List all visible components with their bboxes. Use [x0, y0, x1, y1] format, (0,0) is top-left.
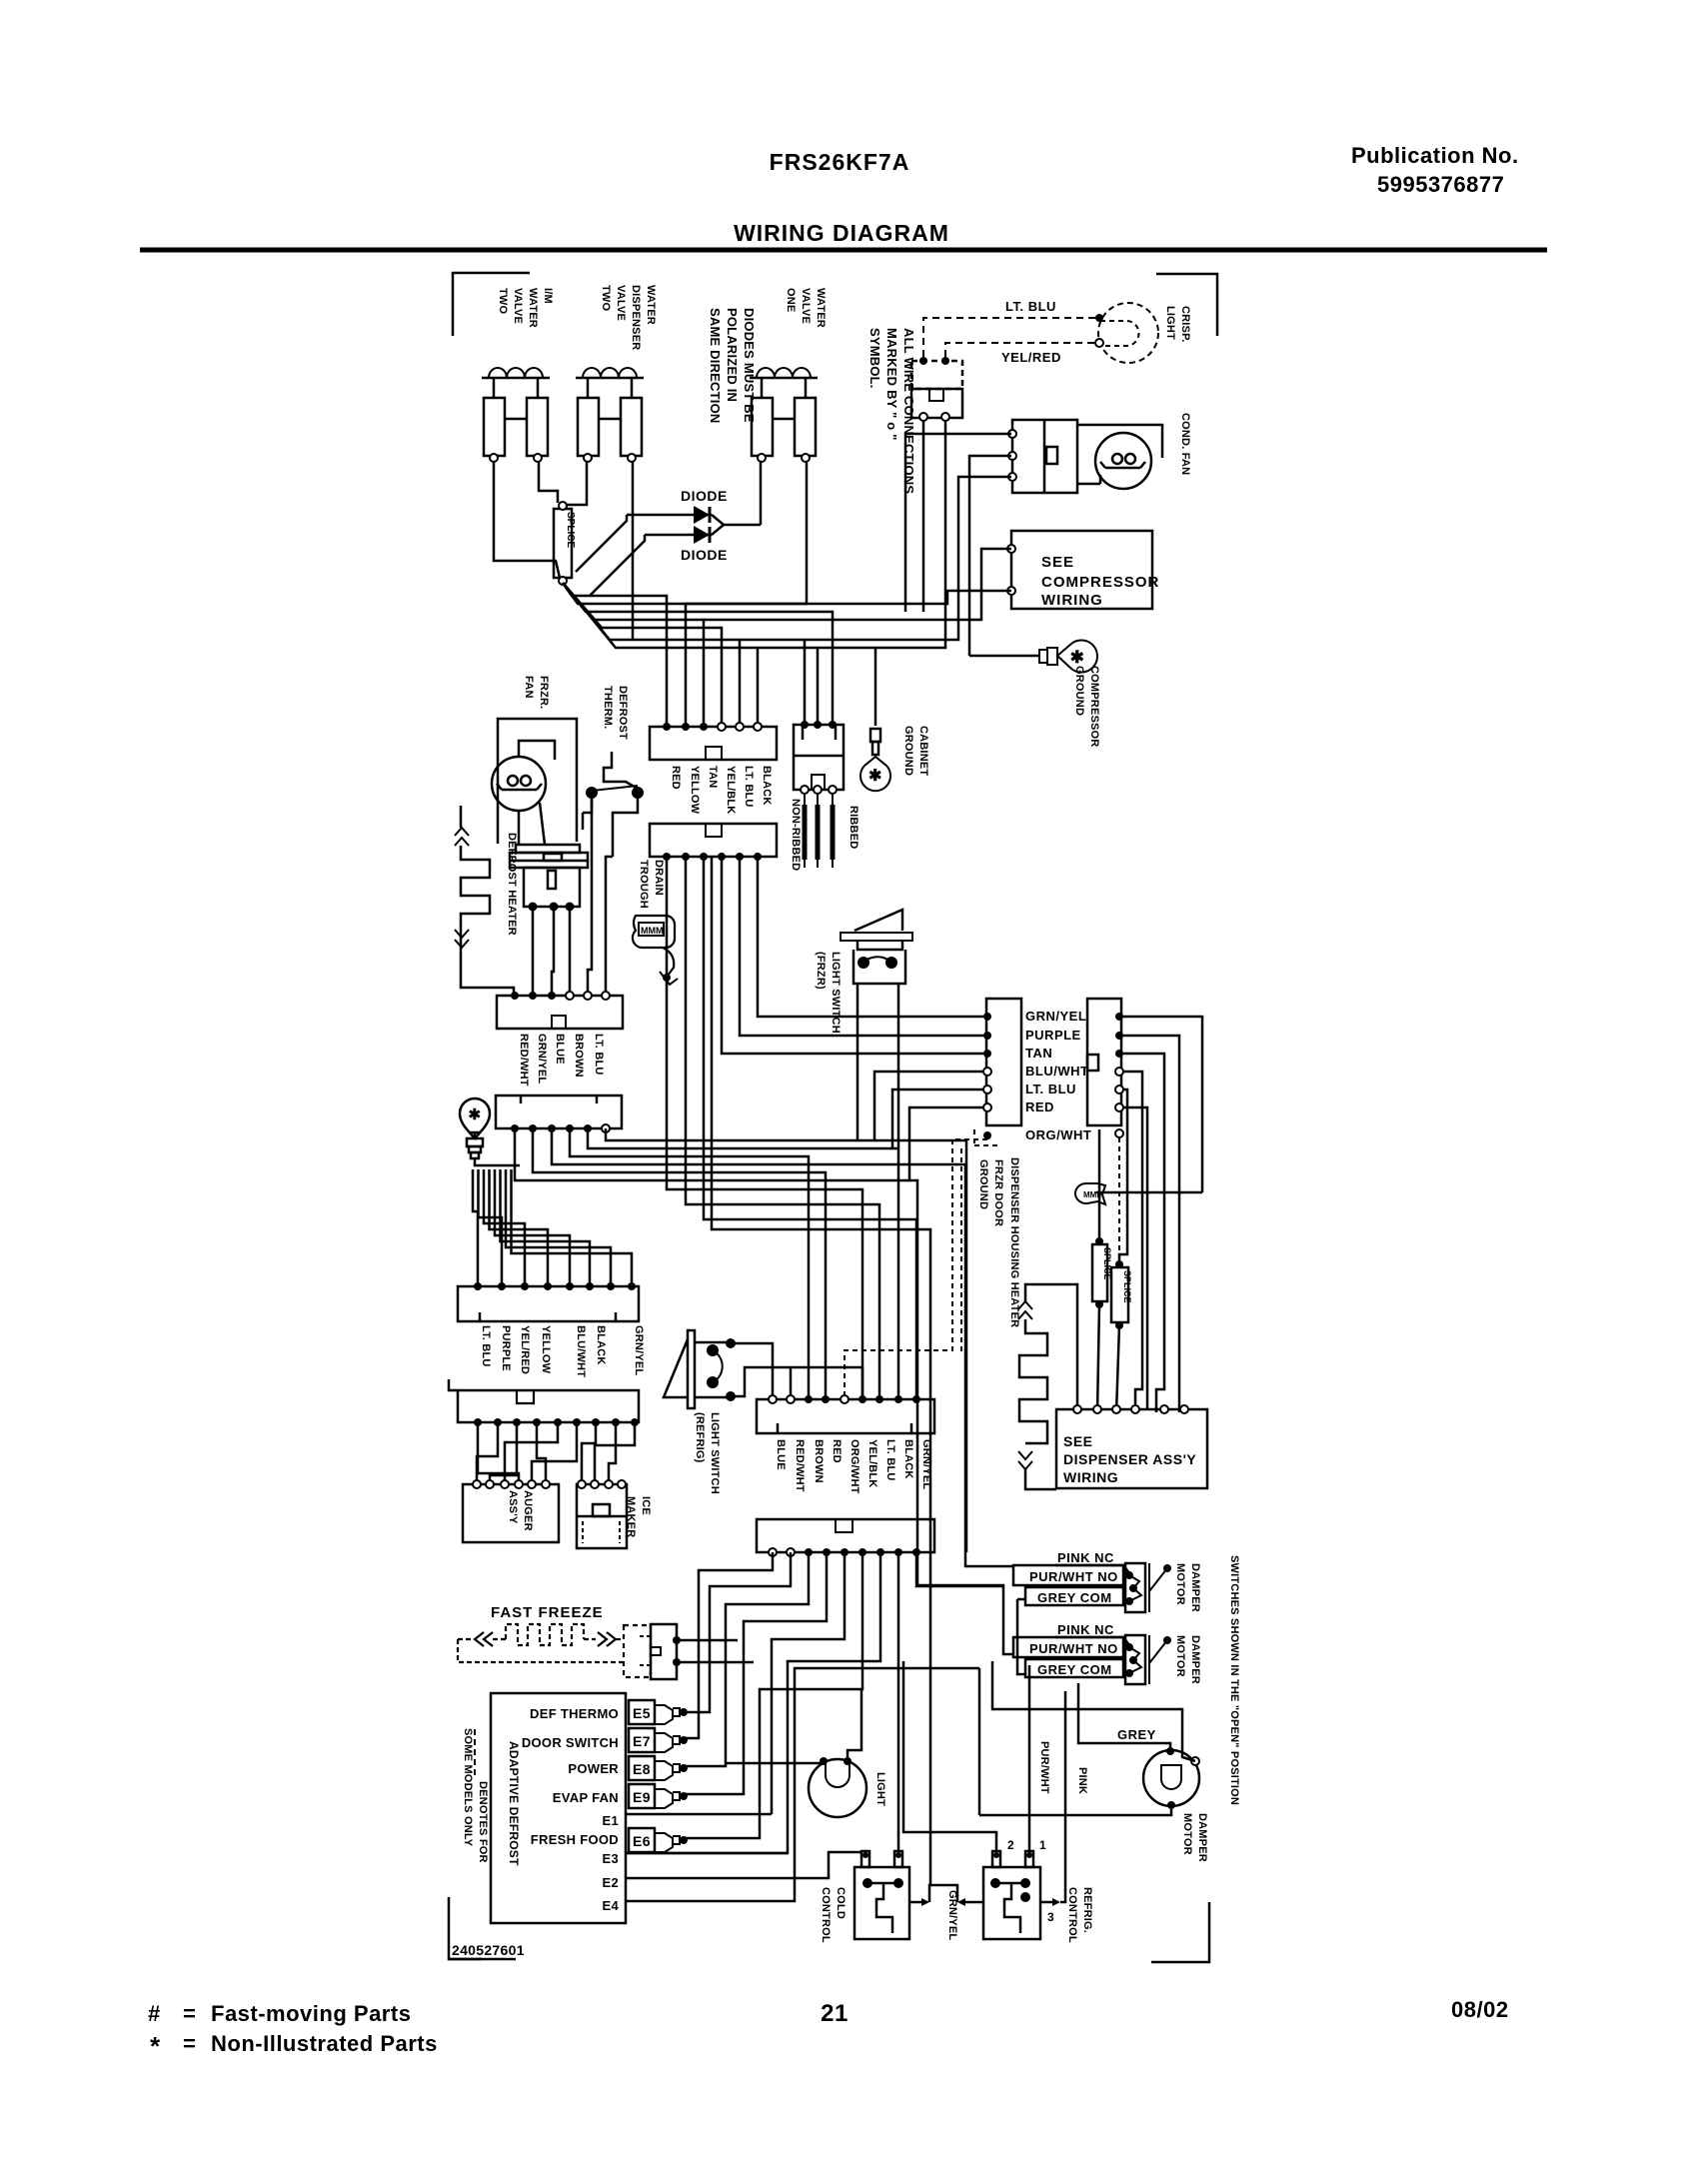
wire valve1 right	[539, 462, 558, 503]
frzr door ground lug	[1075, 1183, 1105, 1204]
svg-text:BLACK: BLACK	[595, 1325, 607, 1365]
svg-text:PURPLE: PURPLE	[1025, 1028, 1081, 1043]
svg-text:DEFROST HEATER: DEFROST HEATER	[506, 833, 518, 936]
dispenser housing heater zigzag	[1018, 1301, 1032, 1319]
crisp light bulb	[1098, 303, 1158, 363]
damper motor arm	[1163, 1564, 1171, 1572]
left box feeds l4-l6	[874, 1072, 983, 1140]
svg-text:TAN: TAN	[1025, 1046, 1052, 1061]
svg-text:PINK NC: PINK NC	[1057, 1622, 1114, 1637]
svg-text:SEE: SEE	[1041, 554, 1074, 571]
svg-text:E6: E6	[633, 1833, 651, 1849]
svg-text:DISPENSER ASS'Y: DISPENSER ASS'Y	[1063, 1451, 1196, 1467]
heater bottom wire to connector	[461, 948, 514, 996]
svg-text:YEL/RED: YEL/RED	[1001, 350, 1061, 365]
svg-text:BROWN: BROWN	[813, 1439, 825, 1483]
damper switch pur/wht no box	[1013, 1565, 1123, 1585]
svg-text:E1: E1	[602, 1813, 619, 1828]
frame bracket bottom-right	[1151, 1902, 1209, 1962]
light switch refrig	[688, 1330, 695, 1408]
svg-text:ADAPTIVE DEFROST: ADAPTIVE DEFROST	[507, 1741, 521, 1866]
svg-text:PINK NC: PINK NC	[1057, 1550, 1114, 1565]
ribbed feed wires	[804, 640, 807, 725]
wire to damper right	[992, 1661, 1195, 1761]
svg-text:SOME MODELS ONLY: SOME MODELS ONLY	[462, 1728, 474, 1847]
wire valve3 left to diode out	[760, 462, 763, 525]
wire diode1 left leg	[576, 515, 627, 572]
wires L2 to auger/ice maker	[478, 1422, 519, 1484]
see dispenser assy wiring box	[1056, 1409, 1207, 1488]
denotes-for note	[474, 1729, 476, 1775]
svg-text:SPLICE: SPLICE	[1122, 1270, 1132, 1303]
svg-text:DISPENSER HOUSING HEATER: DISPENSER HOUSING HEATER	[1008, 1157, 1020, 1327]
bus from C2 t1	[515, 1128, 1013, 1654]
connector C1	[497, 996, 623, 1029]
defrost heater zigzag	[460, 806, 463, 828]
frzr fan motor leads	[518, 811, 521, 845]
connector 9A	[757, 1399, 934, 1433]
direct board wires	[626, 1813, 772, 1816]
wire lt.blu dashed	[923, 318, 1095, 357]
svg-text:RED/WHT: RED/WHT	[794, 1439, 806, 1492]
svg-text:DEF THERMO: DEF THERMO	[530, 1706, 619, 1721]
svg-text:GRN/YEL: GRN/YEL	[1025, 1009, 1086, 1024]
wire cabinet ground feed	[874, 648, 877, 726]
svg-text:LT. BLU: LT. BLU	[593, 1034, 605, 1076]
water valve solenoid bodies	[578, 398, 599, 456]
frame bracket top-right	[1156, 274, 1217, 336]
damper motor	[1143, 1750, 1199, 1806]
frzr fan frame	[498, 719, 577, 844]
fast freeze wires	[677, 1639, 738, 1642]
fast freeze connector	[624, 1625, 651, 1677]
svg-text:NON-RIBBED: NON-RIBBED	[790, 799, 802, 871]
damper switch mech	[1125, 1635, 1145, 1684]
bus from C2 t2	[533, 1128, 826, 1399]
wire valve1 left to splice	[494, 462, 560, 578]
wire see-comp t1	[704, 549, 1011, 620]
svg-text:=: =	[183, 2001, 196, 2026]
svg-text:DOOR SWITCH: DOOR SWITCH	[522, 1735, 619, 1750]
svg-text:E4: E4	[602, 1898, 619, 1913]
svg-text:DIODE: DIODE	[681, 547, 728, 563]
svg-text:WIRING: WIRING	[1063, 1469, 1118, 1485]
svg-text:WIRING: WIRING	[1041, 592, 1103, 609]
wire yel/red dashed	[945, 343, 1095, 357]
splice R2	[1111, 1267, 1128, 1322]
bus from C2 t3	[552, 1128, 1013, 1566]
connector pair left box	[986, 999, 1021, 1125]
drain trough symbol	[633, 916, 675, 948]
svg-text:RED: RED	[670, 766, 682, 790]
svg-text:LT. BLU: LT. BLU	[1005, 299, 1056, 314]
svg-text:GREY COM: GREY COM	[1037, 1590, 1112, 1605]
water valve coil	[576, 377, 644, 380]
ice maker box	[577, 1484, 627, 1548]
wire cond fan t1 to bus	[905, 434, 1011, 612]
svg-text:✱: ✱	[468, 1106, 481, 1123]
bus from C2 t6	[606, 1128, 966, 1552]
dashed stub left box	[973, 1129, 975, 1145]
svg-text:=: =	[183, 2031, 196, 2056]
svg-text:EVAP FAN: EVAP FAN	[553, 1790, 619, 1805]
svg-text:BROWN: BROWN	[573, 1034, 585, 1078]
svg-text:YEL/BLK: YEL/BLK	[725, 766, 737, 814]
connector pair right box	[1087, 999, 1121, 1125]
svg-text:*: *	[150, 2031, 161, 2061]
wire diode2 left leg	[590, 535, 645, 596]
adaptive defrost board	[491, 1693, 626, 1923]
water valve solenoid bodies	[484, 398, 505, 456]
water valve coil	[482, 377, 550, 380]
svg-text:PINK: PINK	[1076, 1767, 1088, 1794]
splice top-left	[554, 509, 572, 578]
svg-text:COND. FAN: COND. FAN	[1179, 413, 1191, 475]
svg-text:#: #	[148, 2001, 161, 2026]
grey com link wire	[1017, 1598, 1025, 1601]
svg-text:POWER: POWER	[568, 1761, 619, 1776]
wire bus y648	[563, 421, 945, 648]
cabinet ground lug	[870, 729, 880, 742]
org/wht dashed bus	[952, 1138, 987, 1140]
ground screw wire	[475, 1158, 520, 1165]
svg-text:DENOTES FOR: DENOTES FOR	[477, 1781, 489, 1863]
svg-text:RED: RED	[831, 1439, 843, 1463]
svg-text:YELLOW: YELLOW	[689, 766, 701, 815]
svg-text:E5: E5	[633, 1705, 651, 1721]
auger assy box	[463, 1484, 559, 1542]
compressor ground lug	[969, 655, 1039, 658]
crisp light connector (dashed)	[911, 361, 962, 389]
svg-text:Publication No.: Publication No.	[1351, 143, 1519, 168]
svg-text:WIRING DIAGRAM: WIRING DIAGRAM	[734, 220, 949, 246]
light wires	[726, 1761, 824, 1763]
connector 9B fan-out	[686, 1552, 773, 1738]
frame bracket top-left	[453, 273, 530, 336]
connector plug A2	[650, 824, 777, 857]
frame bracket bottom-left	[449, 1897, 482, 1959]
cond fan motor	[1095, 433, 1151, 489]
motor flange	[516, 845, 580, 853]
dashed boundary left	[960, 1148, 962, 1353]
connector L2 lower	[458, 1390, 639, 1422]
damper motor arm	[1163, 1636, 1171, 1644]
title rule	[140, 248, 1547, 253]
svg-text:FRS26KF7A: FRS26KF7A	[770, 149, 910, 175]
grn/yel jog wire	[909, 1901, 921, 1904]
svg-text:E7: E7	[633, 1733, 651, 1749]
svg-text:ORG/WHT: ORG/WHT	[1025, 1127, 1091, 1142]
light switch refrig wires	[731, 1343, 773, 1399]
cond fan connector	[1012, 420, 1077, 493]
svg-text:PUR/WHT NO: PUR/WHT NO	[1029, 1641, 1118, 1656]
svg-text:LT. BLU: LT. BLU	[884, 1439, 896, 1481]
svg-text:MMM: MMM	[641, 926, 664, 936]
svg-text:LIGHT: LIGHT	[874, 1772, 886, 1806]
light switch wires down	[856, 984, 859, 1140]
bus from C2 t4	[570, 1128, 809, 1399]
diode 2	[645, 534, 712, 537]
damper switch mech	[1125, 1563, 1145, 1612]
svg-text:TAN: TAN	[707, 766, 719, 788]
damper switch grey com box	[1025, 1659, 1123, 1677]
bus from conn A t4	[712, 857, 930, 1885]
svg-text:RIBBED: RIBBED	[848, 806, 859, 849]
svg-text:1: 1	[1039, 1838, 1046, 1852]
splice R1	[1092, 1244, 1107, 1301]
motor terminal wires	[532, 911, 535, 996]
svg-text:BLACK: BLACK	[761, 766, 773, 806]
svg-text:SEE: SEE	[1063, 1433, 1093, 1449]
refrig control wires	[903, 1661, 996, 1851]
svg-text:2: 2	[1007, 1838, 1014, 1852]
ribbed wires	[804, 794, 806, 868]
svg-text:✱: ✱	[868, 768, 882, 785]
svg-text:GREY COM: GREY COM	[1037, 1662, 1112, 1677]
svg-text:BLUE: BLUE	[554, 1034, 566, 1065]
ground screw left	[460, 1098, 490, 1138]
wire bundle splice to connector1	[563, 583, 667, 727]
svg-text:YEL/BLK: YEL/BLK	[866, 1439, 878, 1487]
svg-text:YELLOW: YELLOW	[540, 1325, 552, 1374]
svg-text:FAST FREEZE: FAST FREEZE	[491, 1604, 604, 1621]
frzr fan motor	[492, 757, 546, 811]
defrost therm step wire	[604, 752, 638, 789]
svg-text:Fast-moving Parts: Fast-moving Parts	[211, 2001, 411, 2026]
svg-text:YEL/RED: YEL/RED	[519, 1325, 531, 1374]
wire valve2 right down	[632, 462, 635, 640]
svg-text:PURPLE: PURPLE	[500, 1325, 512, 1371]
water valve coil	[750, 377, 818, 380]
cold control pin wires	[864, 1851, 867, 1852]
svg-text:Non-Illustrated Parts: Non-Illustrated Parts	[211, 2031, 438, 2056]
ribbed connector	[794, 725, 844, 790]
svg-text:✱: ✱	[1070, 648, 1085, 667]
svg-text:PUR/WHT NO: PUR/WHT NO	[1029, 1569, 1118, 1584]
svg-text:GRN/YEL: GRN/YEL	[633, 1325, 645, 1375]
svg-text:GRN/YEL: GRN/YEL	[946, 1890, 958, 1940]
cold control box	[854, 1867, 909, 1939]
svg-text:RED/WHT: RED/WHT	[518, 1034, 530, 1087]
svg-text:LT. BLU: LT. BLU	[480, 1325, 492, 1367]
svg-text:SWITCHES SHOWN IN THE "OPEN" P: SWITCHES SHOWN IN THE "OPEN" POSITION	[1228, 1555, 1240, 1805]
svg-text:08/02: 08/02	[1451, 1997, 1509, 2022]
motor body	[524, 868, 580, 907]
svg-text:3: 3	[1047, 1910, 1054, 1924]
see compressor wiring box	[1011, 531, 1152, 609]
refrig 3 wire	[1040, 1901, 1052, 1904]
drain trough hook	[663, 948, 674, 976]
svg-text:FRESH FOOD: FRESH FOOD	[531, 1832, 619, 1847]
svg-text:GRN/YEL: GRN/YEL	[536, 1034, 548, 1084]
bus from conn A t3	[704, 857, 916, 1399]
connector L2 upper	[458, 1286, 639, 1321]
bus from conn A t2	[686, 857, 879, 1399]
wire dashed-conn t1 down	[922, 421, 925, 612]
water valve solenoid bodies	[752, 398, 773, 456]
fast freeze heater dashed	[458, 1638, 472, 1640]
cond fan wires	[1077, 425, 1162, 458]
wire valve3 right down to bus	[686, 462, 807, 604]
svg-text:BLUE: BLUE	[775, 1439, 787, 1470]
svg-text:ORG/WHT: ORG/WHT	[849, 1439, 860, 1494]
connector 9B	[757, 1519, 934, 1552]
svg-text:E2: E2	[602, 1875, 619, 1890]
light switch frzr	[841, 933, 912, 941]
wires to L2 upper (nested ladder)	[473, 1169, 478, 1286]
svg-text:E9: E9	[633, 1789, 651, 1805]
svg-text:240527601: 240527601	[452, 1942, 525, 1958]
wire cond fan t2 to compressor ground	[969, 456, 1011, 656]
E-terminal crimps	[629, 1700, 655, 1724]
connector plug A top	[650, 727, 777, 760]
diode 1	[627, 514, 712, 517]
svg-text:LT. BLU: LT. BLU	[743, 766, 755, 808]
connector C2	[496, 1095, 622, 1128]
svg-text:BLACK: BLACK	[902, 1439, 914, 1479]
wire see-comp t2	[686, 591, 1011, 604]
wire bus y640	[563, 477, 1011, 640]
svg-text:E3: E3	[602, 1851, 619, 1866]
svg-text:DIODE: DIODE	[681, 488, 728, 504]
right box wires	[1123, 1017, 1202, 1192]
bus from C2 t5	[588, 1128, 898, 1399]
wire damper bottom	[979, 1809, 1171, 1815]
svg-text:BLU/WHT: BLU/WHT	[1025, 1064, 1088, 1079]
svg-text:5995376877: 5995376877	[1377, 172, 1504, 197]
light bulb	[809, 1759, 866, 1817]
diode output merge	[712, 515, 761, 525]
heater top wire	[1025, 1284, 1077, 1412]
bus from conn A t1	[667, 857, 862, 1399]
defrost thermostat switch	[586, 787, 598, 799]
svg-text:21: 21	[821, 2000, 849, 2027]
heater bottom wire	[1025, 1469, 1056, 1489]
fast freeze dashed return	[458, 1639, 624, 1662]
svg-text:E8: E8	[633, 1761, 651, 1777]
svg-text:COMPRESSOR: COMPRESSOR	[1041, 574, 1159, 591]
left box feeds l1-l3	[758, 857, 983, 1017]
damper switch pur/wht no box	[1013, 1637, 1123, 1657]
svg-text:GRN/YEL: GRN/YEL	[920, 1439, 932, 1489]
svg-text:GREY: GREY	[1117, 1727, 1156, 1742]
svg-text:LT. BLU: LT. BLU	[1025, 1082, 1076, 1096]
switch leg wires	[588, 799, 592, 996]
damper switch grey com box	[1025, 1587, 1123, 1605]
svg-text:RED: RED	[1025, 1099, 1054, 1114]
svg-text:SPLICE: SPLICE	[565, 512, 576, 548]
org/wht dashed route	[1118, 1137, 1120, 1261]
refrig control box	[983, 1867, 1040, 1939]
wire valve2 left to splice top	[566, 462, 587, 505]
svg-text:BLU/WHT: BLU/WHT	[575, 1325, 587, 1377]
svg-text:PUR/WHT: PUR/WHT	[1038, 1741, 1050, 1794]
